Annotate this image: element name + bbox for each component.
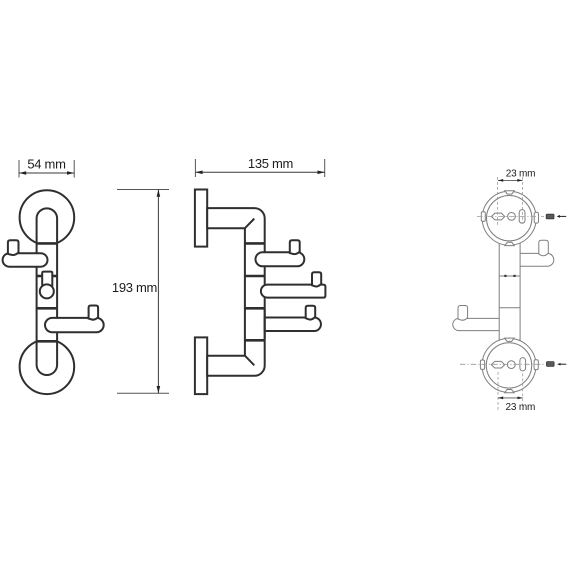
rear: bottom plate left tab — [480, 360, 484, 369]
rear: bottom screw arrow head — [557, 363, 560, 366]
front: left hook stadium — [3, 253, 48, 267]
side: bottom hook — [265, 318, 321, 332]
side: joint line 4 — [245, 339, 265, 342]
side: bar edge restored over bottom hook — [264, 310, 266, 340]
rear: bottom centre line — [460, 363, 544, 365]
front: joint line 2 (split by stem) — [37, 275, 58, 278]
rear: bottom plate 6 o'clock notch — [505, 390, 514, 393]
rear: top plate right slot — [519, 210, 525, 224]
side: bottom wall plate — [195, 337, 207, 394]
dim 193: bottom arrow — [157, 386, 161, 393]
front: top mounting plate circle — [20, 190, 75, 245]
rear: top plate left slot — [491, 213, 504, 220]
rear: top plate inner circle — [487, 196, 532, 241]
dim 23 bottom: left arrow — [498, 397, 503, 400]
front: bottom mounting plate circle — [20, 340, 75, 395]
svg-text:23 mm: 23 mm — [506, 402, 536, 413]
rear: bar joint line 2 — [499, 307, 520, 309]
rear: top plate 12 o'clock notch — [505, 191, 514, 194]
side: joint line 1 — [245, 242, 265, 245]
front: forward hook ball — [40, 284, 54, 298]
dim 135: left tick — [194, 159, 196, 177]
svg-text:193 mm: 193 mm — [112, 280, 157, 295]
rear: bottom hook (behind bar) — [453, 318, 511, 330]
rear: top left dashed extension — [497, 177, 499, 227]
rear: top centre line — [477, 215, 544, 217]
dim 193: bottom extension line — [117, 392, 169, 394]
side: top wall plate — [195, 190, 207, 247]
dim 23 bottom: right arrow — [518, 397, 523, 400]
side: bottom miter line — [245, 356, 254, 366]
rear: bottom plate right slot — [520, 358, 526, 371]
rear: bottom hook knob — [458, 306, 468, 321]
front: forward hook stem — [42, 272, 52, 287]
rear: top plate 6 o'clock notch — [505, 242, 514, 245]
rear: bottom right dashed extension — [522, 374, 524, 410]
rear: top hook (behind bar) — [508, 253, 554, 266]
rear: bottom screw — [547, 362, 555, 367]
dim 23 top: left arrow — [498, 179, 503, 182]
front: joint line 3 — [37, 307, 58, 310]
rear: top screw — [546, 214, 554, 219]
dim 54: right arrow — [67, 171, 74, 175]
rear: top plate left tab — [481, 212, 485, 222]
rear: top right dashed extension — [522, 177, 524, 224]
side: top hook knob — [290, 240, 300, 254]
dim 23 top: right arrow — [517, 179, 522, 182]
side: joint line 3 — [245, 307, 265, 310]
front: left hook knob — [8, 240, 19, 255]
dim 193: top extension line — [117, 189, 169, 191]
front: vertical bar (stadium) — [37, 208, 58, 375]
dim 54: left tick — [18, 160, 20, 178]
dim 54: right tick — [73, 160, 75, 178]
front: joint line 1 — [37, 242, 58, 245]
dim 135: line — [195, 171, 324, 173]
front: right hook stadium — [45, 318, 104, 332]
rear: bottom screw arrow line — [560, 363, 567, 365]
dim 23 bottom: line — [498, 397, 523, 399]
side: bottom hook knob — [306, 306, 316, 320]
dim 54: left arrow — [19, 171, 26, 175]
side: arm and bar outline — [207, 208, 265, 376]
rear: top plate right tab — [534, 212, 538, 223]
side: joint line 2 — [245, 275, 265, 278]
rear: bottom plate inner circle — [486, 343, 531, 388]
rear: bottom plate right tab — [534, 360, 538, 370]
dim 135: right tick — [324, 159, 326, 177]
rear: top plate center hole — [508, 213, 516, 221]
dim 193: vertical line — [157, 190, 159, 394]
rear: top screw arrow head — [557, 215, 560, 218]
side: top miter line — [245, 219, 254, 229]
svg-text:23 mm: 23 mm — [506, 169, 536, 180]
dim 193: top arrow — [157, 190, 161, 197]
rear: bottom plate 12 o'clock notch — [505, 338, 514, 341]
side: middle hook knob — [312, 272, 321, 286]
rear: top hook knob — [539, 240, 549, 256]
side: top hook stadium — [256, 252, 305, 266]
dim 135: right arrow — [318, 171, 325, 175]
front: joint line 4 — [37, 340, 58, 343]
svg-text:135 mm: 135 mm — [248, 156, 293, 171]
rear: bar — [499, 241, 520, 340]
rear: top screw arrow line — [559, 215, 566, 217]
rear: bottom plate center hole — [507, 361, 515, 369]
side: middle hook — [261, 285, 326, 298]
rear: top plate outer circle — [482, 191, 536, 245]
dim 23 top: line — [498, 179, 523, 181]
rear: bottom plate left slot — [491, 361, 504, 368]
dim 135: left arrow — [195, 171, 202, 175]
rear: hidden hook tick marks — [504, 275, 515, 277]
rear: bottom left dashed extension — [497, 372, 499, 410]
dim 54: line — [19, 172, 74, 174]
rear: bottom plate outer circle — [482, 338, 536, 392]
rear: bar joint line 1 — [499, 275, 520, 277]
svg-text:54 mm: 54 mm — [27, 157, 65, 172]
front: right hook knob — [89, 306, 99, 320]
